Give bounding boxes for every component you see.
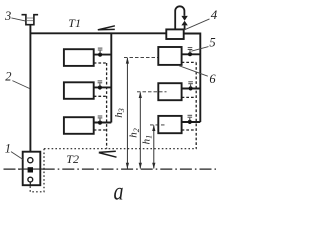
dimension h2 — [139, 92, 142, 169]
dash-dot through unit 1 — [18, 168, 45, 170]
unit 1 pump square — [28, 167, 33, 172]
return connection radiator L2 dashed — [94, 95, 107, 97]
extension line h2 over radiator R2 — [137, 91, 167, 93]
heat network line T2 dash-dot — [4, 168, 217, 170]
supply riser right column with pipe from air collector — [184, 34, 201, 123]
valve at L2 — [98, 81, 103, 90]
return connection radiator R1 dashed — [182, 61, 197, 63]
valve at R3 — [188, 115, 193, 124]
valve at R2 — [188, 82, 193, 91]
air vent valve stem to collector — [184, 25, 186, 29]
svg-text:T1: T1 — [68, 16, 81, 30]
supply connection radiator L3 — [94, 122, 112, 124]
radiator R3 — [158, 116, 181, 133]
expansion tank 3 — [22, 15, 39, 25]
leader 6 — [178, 65, 208, 76]
dimension h3 — [124, 57, 158, 169]
return loop to unit 1 dotted — [30, 149, 44, 192]
radiator L2 — [64, 82, 94, 99]
svg-text:а: а — [113, 177, 123, 204]
svg-text:T2: T2 — [66, 152, 79, 166]
leader 5 — [191, 47, 208, 52]
svg-text:2: 2 — [5, 70, 11, 84]
supply connection radiator R2 — [182, 88, 201, 90]
air vent pipe arch — [175, 6, 184, 29]
radiator R1 — [158, 47, 181, 65]
svg-text:3: 3 — [4, 9, 11, 23]
air collector 4 — [166, 29, 183, 39]
radiator R2 — [158, 83, 181, 100]
slope mark on supply main — [98, 26, 115, 30]
valve at R1 — [188, 48, 193, 57]
valve at L1: dot stem and handle bars — [98, 48, 103, 57]
return riser right column dashed — [195, 62, 197, 148]
svg-text:6: 6 — [209, 72, 216, 86]
unit 1 bottom circle — [28, 177, 33, 182]
leader 2 — [12, 81, 29, 89]
air vent valve hourglass — [181, 16, 187, 26]
boiler unit 1 — [23, 152, 41, 186]
dimension h1 — [152, 125, 155, 169]
supply main T1 — [30, 32, 167, 34]
radiator L1 — [64, 49, 94, 66]
supply connection radiator L2 — [94, 86, 112, 88]
valve at L3 — [98, 116, 103, 125]
leader 3 — [11, 18, 25, 21]
svg-text:1: 1 — [5, 141, 11, 155]
unit 1 bottom stem — [29, 182, 31, 185]
return riser left column dashed — [106, 63, 108, 149]
radiator L3 — [64, 117, 94, 134]
return connection radiator L3 dashed — [94, 129, 107, 131]
svg-text:5: 5 — [209, 35, 215, 49]
unit 1 top circle — [28, 158, 33, 163]
main riser 2 — [29, 25, 31, 153]
supply connection radiator R1 — [182, 53, 201, 55]
supply connection radiator R3 — [182, 121, 201, 123]
leader 4 — [184, 19, 209, 30]
slope mark on return main — [99, 151, 117, 157]
water level lines in tank — [27, 17, 33, 19]
return connection radiator R3 dashed — [182, 129, 197, 131]
return connection radiator L1 dashed — [94, 62, 107, 64]
svg-text:4: 4 — [211, 7, 218, 22]
extension line h1 over radiator R3 — [150, 124, 166, 126]
return connection radiator R2 dashed — [182, 96, 197, 98]
supply connection radiator L1 — [94, 54, 112, 56]
leader 1 — [11, 152, 23, 160]
supply riser left column — [110, 33, 112, 122]
return main dotted — [44, 148, 197, 150]
